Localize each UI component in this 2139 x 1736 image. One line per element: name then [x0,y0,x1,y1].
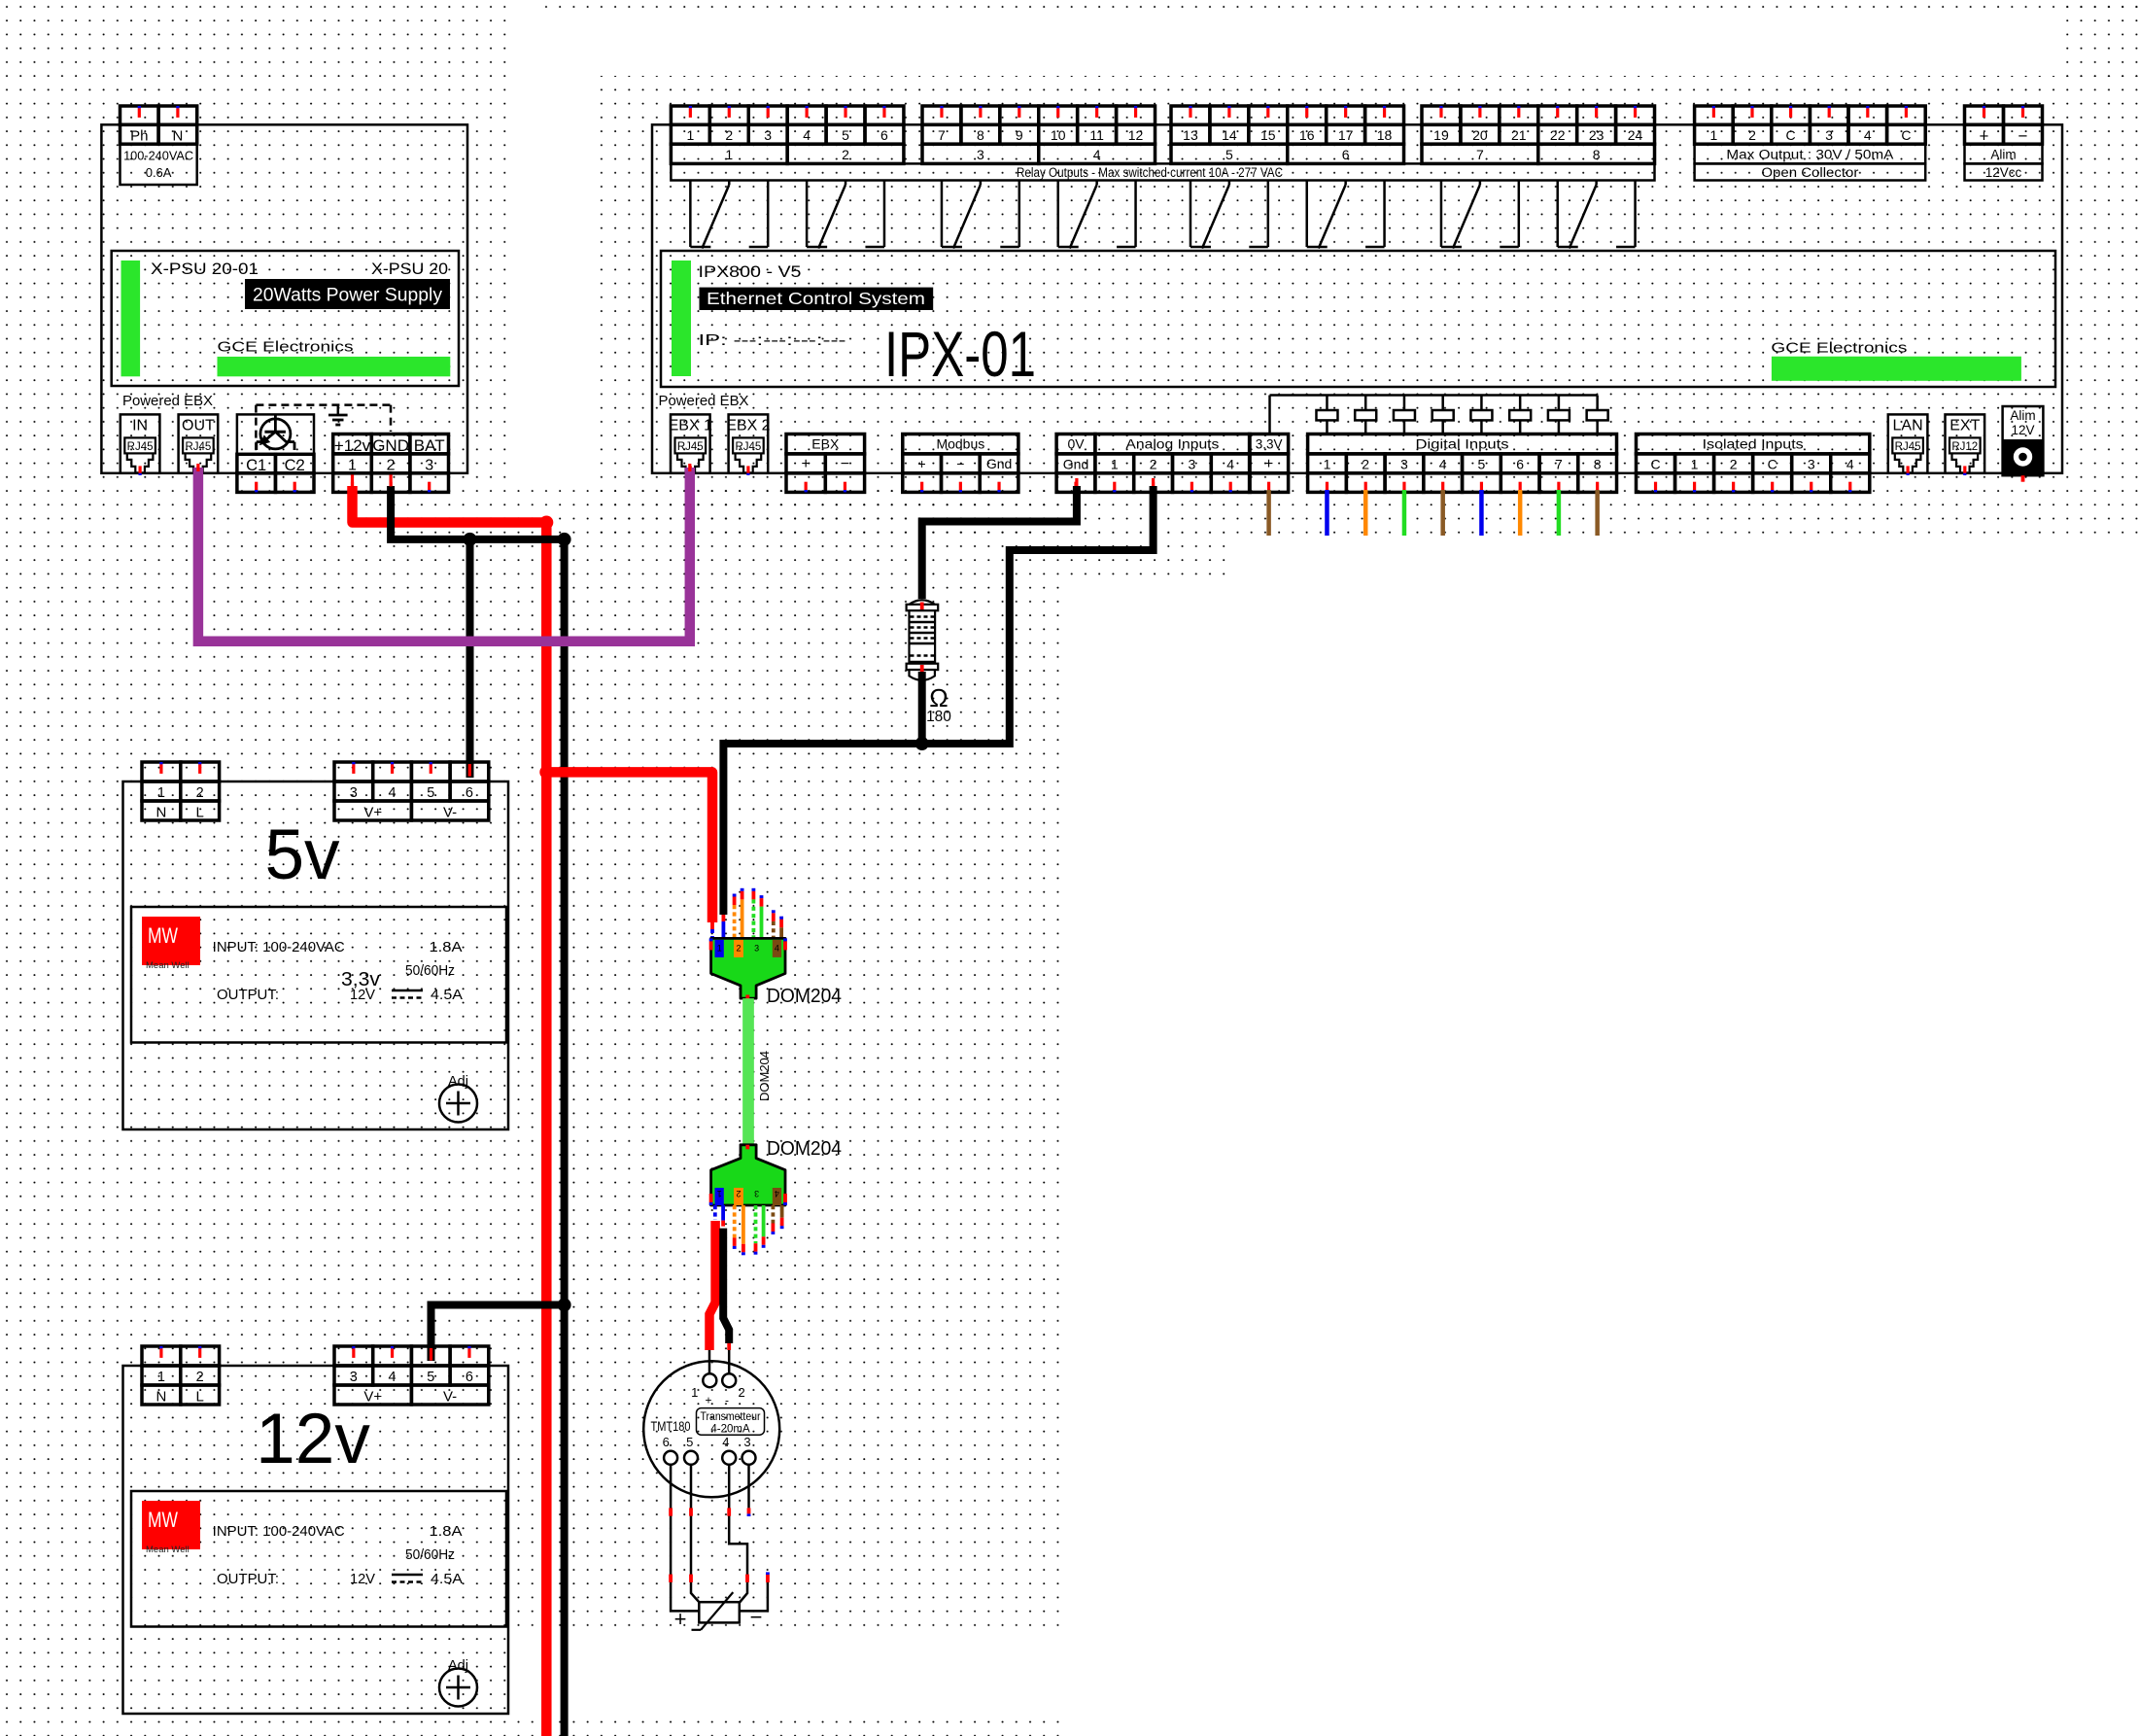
IPX inner label panel [661,251,2055,387]
resistor 180 ohm [907,600,939,680]
svg-text:3: 3 [350,1370,358,1385]
wire black 0V Gnd to resistor [922,486,1077,599]
svg-text:INPUT: 100-240VAC: INPUT: 100-240VAC [213,1524,345,1540]
svg-text:Digital Inputs: Digital Inputs [1416,436,1509,452]
svg-text:2: 2 [196,785,204,801]
svg-text:RJ45: RJ45 [677,441,704,453]
battery charger block C1 C2 [237,414,314,454]
svg-text:Isolated Inputs: Isolated Inputs [1703,436,1804,452]
svg-text:3: 3 [977,147,984,162]
connector EXT RJ12 [1946,414,1985,472]
svg-text:7: 7 [1476,147,1484,162]
svg-text:N: N [155,1388,166,1405]
wire black sensor - [723,1229,729,1343]
svg-text:Open Collector: Open Collector [1761,165,1859,180]
wire black GND from X-PSU [391,486,564,1736]
svg-text:RJ12: RJ12 [1951,441,1978,453]
relay contact [1305,181,1308,248]
pin wire [779,927,783,938]
terminal block Digital Inputs [1308,434,1617,454]
svg-text:Adj: Adj [448,1658,468,1674]
green bar horizontal IPX [1772,357,2021,381]
svg-text:3: 3 [764,127,772,143]
svg-text:6: 6 [880,127,888,143]
svg-text:GCE Electronics: GCE Electronics [218,339,354,356]
power supply module outline [123,1366,509,1714]
svg-text:2: 2 [1150,457,1157,472]
IPX800 V5 module outline [652,124,2062,473]
input wire [1479,490,1484,536]
svg-text:1: 1 [157,785,165,801]
svg-text:7: 7 [1555,457,1563,472]
input wire [1325,490,1329,536]
svg-text:8: 8 [977,127,984,143]
wire blue dashed pin1 bottom [713,1205,717,1220]
thermistor symbol [699,1602,740,1622]
svg-text:C: C [1650,457,1660,472]
fuse network 3.3V to digital inputs [1270,394,1598,397]
wire red branch to DOM204 [546,772,712,922]
svg-text:3: 3 [425,458,433,474]
svg-text:5: 5 [1225,147,1233,162]
connector DOM204 top [711,938,785,998]
svg-text:1: 1 [717,1189,722,1198]
input wire [1557,490,1562,536]
svg-text:−: − [2018,126,2028,145]
terminal block Ph/N mains input [121,106,159,124]
svg-text:+: + [801,456,810,472]
label 100-240VAC 0.6A [121,144,197,185]
svg-text:4: 4 [1864,127,1872,143]
svg-text:2: 2 [1748,127,1756,143]
svg-text:+: + [1264,456,1273,472]
pin wire [780,1205,784,1218]
svg-text:6: 6 [663,1435,670,1449]
svg-text:1: 1 [1324,457,1331,472]
connector Alim 12V barrel jack [2003,406,2044,475]
svg-text:4: 4 [389,1370,397,1385]
svg-text:EBX 2: EBX 2 [726,418,770,434]
ground symbol [337,405,340,415]
svg-text:X-PSU 20-01: X-PSU 20-01 [151,260,259,278]
svg-text:5: 5 [842,127,849,143]
pin wire [741,899,744,938]
wire blue pin1b bottom [721,1205,725,1221]
svg-text:12Vcc: 12Vcc [1985,165,2022,180]
svg-text:20: 20 [1472,127,1488,143]
svg-text:12V: 12V [2011,423,2034,437]
junction black main [558,533,571,546]
svg-text:2: 2 [1362,457,1369,472]
svg-text:5: 5 [1478,457,1486,472]
svg-text:15: 15 [1260,127,1276,143]
PSU data panel [131,1491,506,1627]
svg-text:DOM204: DOM204 [767,1138,842,1160]
svg-text:DOM204: DOM204 [757,1051,772,1101]
svg-text:21: 21 [1511,127,1527,143]
svg-text:Alim: Alim [1990,148,2016,162]
svg-text:2: 2 [842,147,849,162]
svg-text:IP: ---:---:---:---: IP: ---:---:---:--- [699,332,846,349]
svg-text:4: 4 [775,1189,779,1198]
svg-text:C: C [1901,127,1911,143]
wire pin4 to thermistor [729,1465,747,1603]
transistor symbol in charger [260,419,291,449]
pin wire [772,1205,776,1224]
svg-text:TMT180: TMT180 [651,1419,691,1434]
svg-text:4-20mA: 4-20mA [710,1424,750,1436]
svg-text:100-240VAC: 100-240VAC [123,149,193,163]
svg-text:EBX 1: EBX 1 [669,418,712,434]
relay contact [806,181,809,248]
svg-text:+: + [705,1394,711,1407]
svg-text:BAT: BAT [414,436,445,455]
pin 3 [742,1451,756,1465]
svg-text:18: 18 [1377,127,1393,143]
input wire [1440,490,1445,536]
svg-text:EXT: EXT [1949,418,1980,434]
svg-text:V-: V- [443,804,457,820]
terminal block Modbus [903,434,1018,454]
pin wire [733,1205,737,1237]
wire green DOM204 cable [742,998,754,1145]
pin 1 [703,1373,716,1387]
svg-text:22: 22 [1550,127,1566,143]
svg-text:23: 23 [1589,127,1604,143]
open collector terminal block [1695,106,1734,124]
junction node resistor [915,737,929,750]
svg-text:1: 1 [686,127,694,143]
dashed net to ground [256,403,391,406]
wire black to 12v V- [431,1305,565,1362]
pin wire [760,907,764,939]
svg-text:1: 1 [1111,457,1119,472]
svg-text:8: 8 [1593,147,1601,162]
svg-text:2: 2 [387,458,396,474]
svg-text:5v: 5v [264,816,340,894]
fuse [1558,396,1561,411]
pin 4 [722,1451,736,1465]
relay contact [1440,181,1443,248]
svg-text:L: L [196,804,204,820]
svg-text:3: 3 [1825,127,1833,143]
svg-text:2: 2 [725,127,733,143]
fuse [1519,396,1522,411]
svg-text:N: N [172,128,183,145]
svg-text:1: 1 [348,458,357,474]
svg-text:1: 1 [725,147,733,162]
svg-text:3: 3 [350,785,358,801]
svg-text:Modbus: Modbus [936,436,984,452]
svg-text:1: 1 [1691,457,1699,472]
terminal block EBX plus/minus [786,434,865,454]
wire pin5 to thermistor [691,1465,699,1602]
svg-text:14: 14 [1222,127,1237,143]
svg-text:−: − [750,1605,763,1629]
terminal block V+ V- [334,1346,373,1366]
svg-text:4: 4 [389,785,397,801]
svg-text:Mean Well: Mean Well [146,960,190,971]
svg-text:4: 4 [803,127,811,143]
svg-text:6: 6 [466,785,473,801]
Mean Well logo MW [142,1501,200,1549]
pin tick overlays on wires [351,474,354,486]
svg-text:-: - [725,1394,729,1407]
wire stub pin3 [747,1465,750,1508]
svg-text:12: 12 [1128,127,1144,143]
wire to TMT180 pin1 [708,1350,711,1373]
fuse [1364,396,1367,411]
svg-text:Powered EBX: Powered EBX [122,394,213,409]
svg-text:Ph: Ph [130,128,148,145]
pin wire [733,905,737,938]
X-PSU inner label panel [112,251,459,386]
label 20Watts Power Supply [245,279,450,309]
input wire [1266,490,1271,536]
svg-text:Alim: Alim [2010,408,2035,423]
svg-text:4.5A: 4.5A [431,1572,463,1587]
relay output terminal strips 1-24 [671,106,709,124]
svg-text:4: 4 [775,944,779,954]
svg-text:5: 5 [686,1435,693,1449]
pin 6 [664,1451,677,1465]
relay outputs label row [671,163,1654,180]
svg-text:12V: 12V [350,988,375,1003]
Mean Well logo MW [142,917,200,965]
green bar horizontal X-PSU [218,357,451,376]
svg-text:Transmetteur: Transmetteur [701,1411,761,1423]
wire red tip at DOM204 pin1 [710,922,714,929]
green bar vertical X-PSU [121,260,141,376]
wire black to 5v V- [466,539,474,778]
relay contact [1056,181,1059,248]
pin wire [754,1205,758,1243]
pin wire [742,1205,745,1244]
svg-text:+12v: +12v [334,436,371,455]
connector LAN RJ45 [1888,414,1928,472]
svg-text:13: 13 [1183,127,1198,143]
fuse [1403,396,1406,411]
terminal block 3.3V [1250,434,1289,454]
svg-text:+: + [674,1607,687,1631]
svg-text:16: 16 [1299,127,1315,143]
svg-text:20Watts Power Supply: 20Watts Power Supply [253,286,443,306]
terminal block +12v GND BAT [333,434,372,454]
pin 5 [684,1451,698,1465]
svg-text:9: 9 [1016,127,1023,143]
svg-text:GCE Electronics: GCE Electronics [1771,339,1907,356]
wire red sensor + [709,1221,715,1350]
svg-text:3: 3 [1400,457,1408,472]
svg-text:2: 2 [736,944,741,954]
svg-text:EBX: EBX [811,436,840,452]
svg-text:L: L [196,1388,204,1405]
wire black junction to analog input 2 [922,486,1154,744]
svg-text:5: 5 [427,1370,434,1385]
svg-text:3: 3 [754,944,759,954]
relay contact [689,181,692,248]
pin wire [772,921,776,939]
svg-text:2: 2 [736,1189,741,1198]
input wire [1363,490,1368,536]
green bar vertical IPX [672,260,691,376]
input wire [1402,490,1407,536]
svg-text:X-PSU 20: X-PSU 20 [371,260,448,278]
svg-text:+: + [1980,126,1989,145]
svg-text:2: 2 [1730,457,1738,472]
svg-text:1.8A: 1.8A [430,940,463,955]
wire black junction to DOM204 [723,744,921,915]
svg-text:RJ45: RJ45 [127,441,154,453]
connector OUT RJ45 [179,414,219,472]
wire black resistor to junction [918,672,926,744]
connector DOM204 bottom [711,1145,785,1205]
alim 12Vcc terminal block [1965,106,2004,124]
svg-text:OUTPUT:: OUTPUT: [217,988,279,1003]
isolated inputs terminal block [1637,434,1870,454]
svg-text:Max Output : 30V / 50mA: Max Output : 30V / 50mA [1726,148,1893,162]
terminal block N L [142,762,181,781]
svg-text:−: − [956,456,964,471]
svg-text:0V: 0V [1067,436,1085,452]
PSU data panel [131,907,506,1043]
wire red +12v from X-PSU [353,486,547,1736]
svg-text:17: 17 [1338,127,1354,143]
svg-text:N: N [155,804,166,820]
svg-text:3: 3 [754,1189,759,1198]
connector EBX 2 RJ45 [729,414,769,472]
svg-text:12V: 12V [350,1572,375,1587]
svg-text:LAN: LAN [1893,418,1923,434]
svg-text:1: 1 [1710,127,1718,143]
svg-text:IPX800 - V5: IPX800 - V5 [699,262,802,281]
input wire [1595,490,1600,536]
wire pin6 to thermistor [671,1465,699,1611]
label Transmetteur 4-20mA [697,1408,765,1436]
svg-text:1.8A: 1.8A [430,1524,463,1540]
terminal block V+ V- [334,762,373,781]
sensor TMT180 body [643,1361,779,1497]
svg-text:7: 7 [938,127,946,143]
svg-text:Analog Inputs: Analog Inputs [1125,436,1219,452]
svg-text:1: 1 [691,1385,698,1400]
DC symbol [392,1574,423,1577]
connector IN RJ45 [121,414,160,472]
svg-text:3: 3 [743,1435,750,1449]
svg-text:4.5A: 4.5A [431,988,463,1003]
fuse [1326,396,1328,411]
relay contact [941,181,944,248]
terminal block 0V / Analog Inputs [1056,434,1095,454]
power supply module X-PSU 20 outline [101,124,467,473]
svg-text:INPUT: 100-240VAC: INPUT: 100-240VAC [213,940,345,955]
svg-text:V+: V+ [363,804,382,820]
svg-text:2: 2 [196,1370,204,1385]
svg-text:24: 24 [1628,127,1643,143]
svg-text:4: 4 [1846,457,1854,472]
svg-text:Gnd: Gnd [1063,457,1088,472]
svg-text:DOM204: DOM204 [767,986,842,1007]
svg-text:11: 11 [1089,127,1104,143]
svg-text:10: 10 [1051,127,1066,143]
svg-text:+: + [918,456,926,471]
svg-text:19: 19 [1433,127,1449,143]
svg-text:4: 4 [1439,457,1447,472]
svg-text:8: 8 [1594,457,1602,472]
svg-text:GND: GND [372,436,409,455]
wire minus stub to thermistor [740,1582,768,1611]
connector EBX 1 RJ45 [671,414,710,472]
svg-text:3: 3 [1189,457,1196,472]
svg-text:OUT: OUT [182,418,215,434]
relay contact [1556,181,1559,248]
power supply module outline [123,781,509,1129]
svg-text:6: 6 [1342,147,1350,162]
svg-text:4: 4 [722,1435,729,1449]
svg-text:V-: V- [443,1388,457,1405]
svg-text:12v: 12v [256,1400,370,1478]
svg-text:0.6A: 0.6A [146,165,172,180]
svg-text:3: 3 [1808,457,1815,472]
wire purple EBX link [198,468,690,642]
svg-text:C: C [1786,127,1796,143]
svg-text:C: C [1768,457,1777,472]
svg-text:MW: MW [148,1508,178,1532]
svg-text:RJ45: RJ45 [735,441,761,453]
svg-text:Powered EBX: Powered EBX [659,394,749,409]
svg-text:Adj: Adj [448,1074,468,1090]
wire to TMT180 pin2 [728,1350,731,1373]
fuse [1596,396,1599,411]
svg-text:−: − [841,456,849,472]
svg-text:50/60Hz: 50/60Hz [405,963,455,979]
svg-text:MW: MW [148,923,178,948]
svg-text:2: 2 [738,1385,744,1400]
svg-text:OUTPUT:: OUTPUT: [217,1572,279,1587]
pin wire [752,899,756,938]
DC symbol [392,990,423,992]
wire black tip at DOM204 pin1b [722,915,726,921]
pin 2 [722,1373,736,1387]
svg-text:6: 6 [1516,457,1524,472]
relay contact [1190,181,1192,248]
svg-text:Mean Well: Mean Well [146,1545,190,1555]
fuse [1441,396,1444,411]
svg-text:3.3V: 3.3V [1256,437,1283,452]
svg-text:4: 4 [1226,457,1234,472]
svg-text:5: 5 [427,785,434,801]
svg-text:IPX-01: IPX-01 [884,318,1036,390]
svg-text:RJ45: RJ45 [1895,441,1921,453]
svg-text:180: 180 [926,709,951,725]
svg-text:1: 1 [157,1370,165,1385]
svg-text:Relay Outputs - Max switched c: Relay Outputs - Max switched current 10A… [1017,165,1283,180]
svg-text:6: 6 [466,1370,473,1385]
svg-text:IN: IN [132,418,148,434]
terminal block N L [142,1346,181,1366]
label Ethernet Control System [700,288,934,310]
fuse [1480,396,1483,411]
svg-text:Ethernet Control System: Ethernet Control System [707,289,925,308]
svg-text:4: 4 [1093,147,1101,162]
pin wire [762,1205,766,1236]
input wire [1518,490,1523,536]
svg-text:Gnd: Gnd [986,456,1012,471]
svg-text:50/60Hz: 50/60Hz [405,1547,455,1563]
svg-text:RJ45: RJ45 [185,441,211,453]
svg-text:1: 1 [717,944,722,954]
